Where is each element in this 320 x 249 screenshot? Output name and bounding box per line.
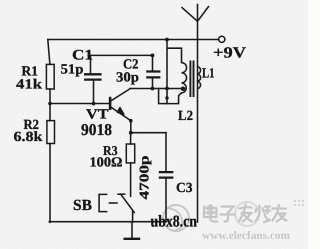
svg-text:6.8k: 6.8k <box>14 130 43 145</box>
svg-text:51p: 51p <box>61 63 84 78</box>
svg-text:9018: 9018 <box>81 120 112 139</box>
svg-text:L2: L2 <box>178 109 193 124</box>
svg-text:L1: L1 <box>202 67 215 82</box>
svg-text:ubx8.cn: ubx8.cn <box>151 212 198 231</box>
svg-text:SB: SB <box>73 197 92 214</box>
svg-text:30p: 30p <box>116 71 139 86</box>
svg-text:41k: 41k <box>16 78 42 93</box>
svg-text:C3: C3 <box>176 181 193 196</box>
svg-text:4700p: 4700p <box>137 156 152 200</box>
svg-text:100Ω: 100Ω <box>90 156 123 171</box>
svg-text:C1: C1 <box>72 48 93 64</box>
svg-text:www.elecfans.com: www.elecfans.com <box>202 230 290 242</box>
svg-text:+9V: +9V <box>213 45 247 62</box>
